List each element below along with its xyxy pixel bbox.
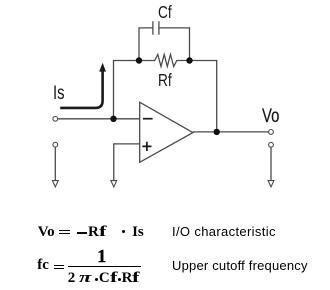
formula 2 equals sign — [54, 265, 65, 269]
terminal output ground — [269, 142, 274, 147]
denominator token Cf — [99, 271, 115, 286]
capacitor Cf — [153, 21, 159, 35]
formula 1 middle dot — [122, 230, 125, 233]
wire feedback right to output node — [190, 61, 217, 132]
formula Vo = -Rf * Is : token Vo — [38, 225, 55, 240]
ground right arrow — [268, 181, 274, 187]
denominator dot 2 — [118, 278, 121, 281]
wire input to inverting input — [58, 118, 140, 120]
formula 1 equals sign — [59, 230, 71, 234]
numerator 1 — [97, 247, 106, 265]
terminal input — [53, 116, 58, 121]
node feedback left junction — [136, 57, 142, 63]
formula 1 token Is — [132, 225, 144, 240]
wire output — [193, 131, 269, 133]
denominator token Rf — [122, 271, 138, 286]
node feedback right junction — [186, 57, 192, 63]
label Vo — [262, 106, 279, 128]
ground left arrow — [52, 181, 58, 187]
wire feedback left vertical — [114, 61, 151, 119]
current arrow Is — [60, 63, 106, 108]
label Cf — [158, 2, 172, 23]
caption I/O characteristic — [172, 225, 276, 238]
wire left ground — [54, 147, 56, 180]
ground middle arrow — [111, 181, 117, 187]
terminal input ground — [53, 142, 58, 147]
formula fc token — [37, 258, 49, 273]
formula 1 token Rf — [88, 225, 104, 240]
fraction bar — [68, 266, 141, 267]
terminal output Vo — [269, 130, 274, 135]
op-amp U1 — [140, 102, 193, 162]
formula 1 minus sign — [77, 232, 88, 234]
wire non-inverting input to ground — [114, 144, 140, 181]
wire output ground — [270, 148, 272, 181]
denominator token pi — [79, 271, 87, 286]
wire capacitor branch left — [139, 28, 153, 61]
label Rf — [158, 70, 172, 91]
caption Upper cutoff frequency — [172, 259, 308, 272]
wire capacitor branch right — [159, 28, 190, 61]
node output junction — [214, 129, 220, 135]
denominator dot 1 — [95, 278, 98, 281]
resistor Rf — [151, 55, 190, 67]
label Is — [53, 83, 65, 105]
denominator token 2 — [68, 271, 76, 286]
node input junction — [110, 116, 116, 122]
